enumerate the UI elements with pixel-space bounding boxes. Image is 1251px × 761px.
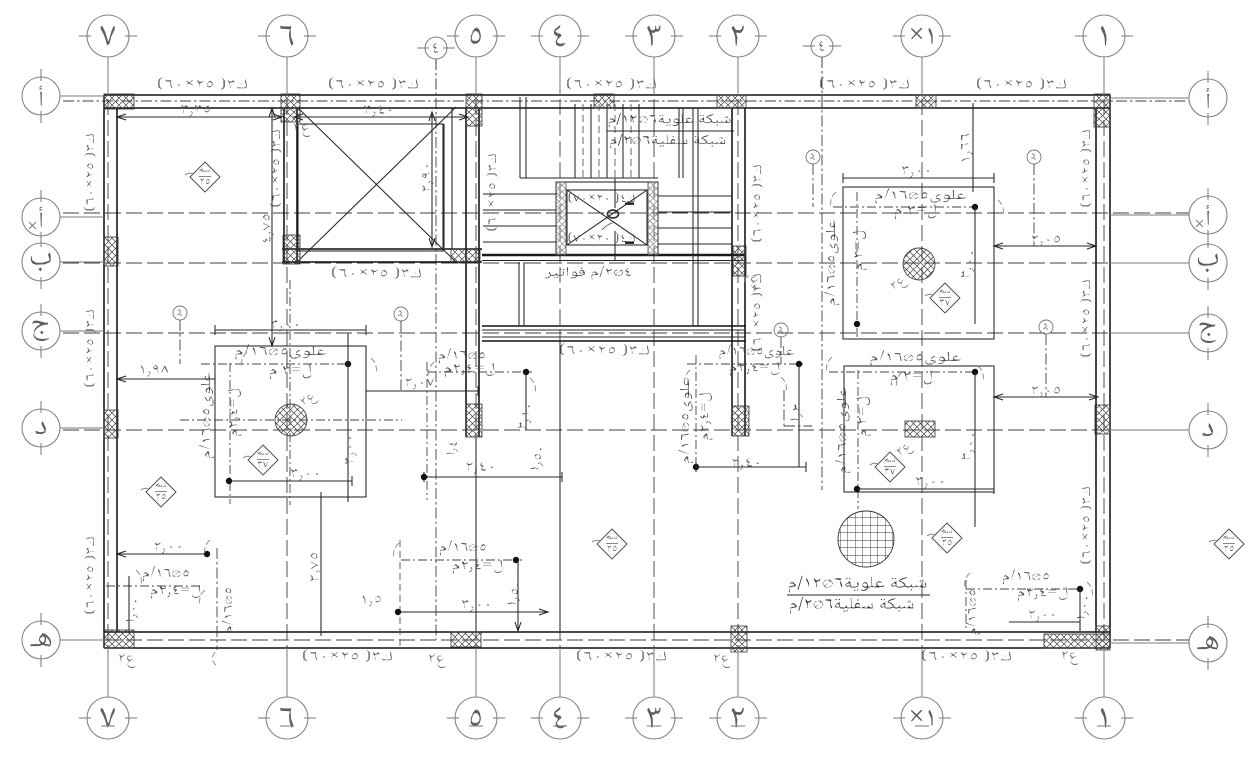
beam label K3 (vertical): [270, 130, 282, 206]
grid bubble 1 top: [1083, 15, 1125, 57]
beam label K3 (vertical): [84, 537, 96, 613]
stair shaft beam below X-square: [282, 248, 482, 250]
stair right flight treads: [658, 195, 732, 197]
beam label K3 (vertical): [751, 274, 763, 350]
callout bracket: [897, 372, 902, 388]
stair upper flight treads: [574, 104, 576, 178]
diamond 25 (outside right): [1214, 529, 1244, 559]
small bubble 4 top-left: [425, 37, 447, 59]
column at 6/A: [281, 94, 300, 122]
beam label K3: [303, 649, 392, 662]
small bubble 4 top-right: [811, 35, 833, 57]
axis bubble left h: [22, 621, 60, 659]
column at 5/E: [451, 632, 481, 647]
column mark: [743, 275, 760, 289]
slab thickness diamond 37: [248, 445, 278, 475]
beam label K3: [820, 77, 909, 90]
beam label K3: [567, 77, 656, 90]
grid row C: [63, 332, 1189, 334]
axis bubble right j: [1189, 314, 1227, 352]
marker circle: [1027, 150, 1041, 164]
stair flight wall right upper: [678, 108, 680, 178]
grid bubble 6 bottom: [266, 697, 308, 739]
rebar callout: [440, 540, 486, 555]
heavy beam (fawatir): [482, 254, 746, 257]
dimension 1.98: [117, 378, 215, 380]
column at 5/D: [466, 404, 482, 437]
grid line 4b: [821, 57, 823, 490]
column at 5/A: [466, 94, 482, 126]
column at 1/A: [1094, 94, 1110, 127]
column below shaft: [451, 249, 480, 263]
slab mesh note (bottom): [789, 575, 926, 592]
column at 6/B: [283, 235, 300, 264]
right wall: [1095, 108, 1097, 632]
X-braced shaft square: [298, 124, 443, 251]
beam label K3 (vertical): [84, 134, 96, 210]
slab mesh note (top) upper line: [609, 113, 731, 127]
axis bubble left a: [22, 198, 60, 236]
landing beam label K4 lower: [569, 232, 635, 244]
grid 4 solid lower segment: [559, 342, 561, 631]
column at 2/D: [732, 406, 749, 436]
column at 2/A: [717, 95, 746, 108]
callout bracket: [200, 590, 205, 606]
grid line x1: [921, 57, 923, 697]
stair landing: [556, 182, 658, 255]
grid bubble 2 top: [717, 15, 759, 57]
wall on grid 2: [731, 108, 733, 436]
rebar note vertical: [678, 378, 693, 463]
rebar note left (vertical): [199, 373, 214, 458]
drop panel (x1/B): [843, 187, 994, 339]
stair flight divider line: [520, 177, 658, 179]
rebar callout: [143, 566, 189, 581]
callout bracket: [530, 378, 535, 394]
dimension 3.00 bottom: [857, 488, 994, 490]
dimension 4.75: [271, 108, 273, 346]
column stair top: [594, 94, 614, 108]
ain mark: [890, 274, 910, 293]
left wall: [103, 95, 105, 648]
beam label K3: [922, 649, 1011, 662]
callout bracket: [831, 192, 836, 208]
column at 7/B: [104, 237, 118, 266]
ain mark: [896, 440, 916, 459]
dimension 2.05: [994, 245, 1096, 247]
beam label K3: [332, 266, 421, 279]
dimension 3.00 right (vertical): [347, 333, 349, 497]
grid bubble 3 bottom: [633, 697, 675, 739]
grid bubble 3 top: [633, 15, 675, 57]
dimension 2.40: [696, 466, 806, 468]
beam label K3: [329, 77, 418, 90]
grid bubble 2 bottom: [717, 697, 759, 739]
dimension 3.35: [117, 116, 282, 118]
rebar callout near 5/C: [439, 348, 485, 363]
grid bubble 7 top: [87, 15, 129, 57]
bottom beam: [104, 631, 1110, 633]
grid row D: [63, 429, 1189, 431]
wall on grid 5: [465, 108, 467, 437]
axis bubble left a: [22, 77, 60, 115]
callout bracket: [998, 200, 1003, 216]
column at 7/A: [104, 94, 134, 109]
diamond 25: [597, 529, 627, 559]
slab mesh note (top) lower line: [610, 134, 725, 148]
callout bracket: [212, 652, 217, 666]
rebar callout near 2/C: [720, 345, 794, 360]
grid line 5: [475, 57, 477, 697]
beam label K3 (vertical): [1080, 130, 1092, 206]
grid row B: [63, 262, 1189, 264]
rebar note: [876, 188, 966, 203]
dimension 2.90: [431, 112, 433, 247]
dimension 3.00 bottom: [229, 480, 352, 482]
dimension 2.40: [424, 476, 562, 478]
drop panel (6/D): [215, 346, 366, 497]
marker circle d: [173, 306, 187, 320]
beam label K3: [577, 649, 666, 662]
marker circle: [774, 323, 788, 337]
grid 5 solid lower segment: [475, 437, 477, 631]
column (hatched circle) at 6/D: [275, 404, 307, 436]
callout bracket: [429, 362, 434, 378]
marker circle: [806, 150, 820, 164]
column at 7/D: [104, 410, 118, 438]
rebar note top: [236, 344, 326, 359]
beam label K3 (vertical): [486, 154, 498, 230]
dimension 1.3 (vertical): [790, 404, 805, 423]
callout bracket: [978, 366, 983, 382]
dimension 3.00 top: [843, 177, 994, 179]
rebar dots: [345, 361, 351, 367]
grid line 4: [559, 57, 561, 697]
column mark: [119, 654, 136, 668]
column right wall bottom: [1096, 626, 1110, 650]
column mark: [429, 654, 446, 668]
dimension 2.00: [117, 553, 207, 555]
dimension 3.00: [398, 611, 548, 613]
dimension 2.00: [1009, 621, 1080, 623]
grid bubble 5 top: [455, 15, 497, 57]
dimension 1.4 (vertical): [445, 440, 460, 456]
grid bubble x1 top: [901, 15, 943, 57]
panel center lines: [201, 363, 352, 365]
ain mark: [300, 390, 320, 409]
column at 2/B: [733, 246, 746, 276]
grid bubble 1 bottom: [1083, 697, 1125, 739]
column at x1/A: [916, 95, 936, 108]
diamond 25: [932, 523, 962, 553]
grid bubble 7 bottom: [87, 697, 129, 739]
callout bracket: [205, 540, 210, 556]
beam label K3: [560, 343, 649, 356]
stair lower beam: [482, 325, 746, 327]
pile cap circle (grid hatch): [838, 511, 894, 567]
column mark: [294, 123, 311, 137]
beam label K3 (vertical): [1080, 280, 1092, 356]
callout bracket: [371, 358, 376, 374]
callout bracket: [242, 352, 247, 368]
dimension 3.00 right vertical: [974, 207, 976, 324]
callout bracket: [685, 370, 690, 386]
axis bubble right h: [1189, 624, 1227, 662]
dimension 2.75 (vertical): [320, 497, 322, 631]
grid line 3: [653, 57, 655, 697]
dash-dot L to row D: [783, 390, 785, 426]
drop panel (x1/D): [844, 366, 994, 492]
callout bracket: [1087, 582, 1092, 598]
dimension 2.05: [994, 396, 1098, 398]
dimension 3.00 top: [215, 329, 366, 331]
axis bubble right a: [1189, 196, 1227, 234]
fawatir note: [544, 266, 631, 280]
slab thickness diamond 25 (top-left): [190, 162, 220, 192]
dimension 3.00 right vertical: [974, 372, 976, 522]
column (hatched circle) at x1/B: [903, 248, 935, 280]
dimension 3.40: [294, 116, 468, 118]
axis bubble right d: [1189, 411, 1227, 449]
rebar note: [871, 350, 961, 365]
callout bracket: [136, 570, 141, 586]
callout bracket: [827, 357, 832, 373]
axis bubble right b: [1189, 244, 1227, 282]
grid line 2: [737, 57, 739, 697]
axis bubble left b: [22, 243, 60, 281]
grid line 4a: [435, 59, 437, 640]
column at 7/E corner: [104, 630, 134, 648]
top beam: [104, 94, 1110, 96]
divider: [607, 130, 734, 132]
grid line 6: [286, 57, 288, 697]
grid bubble 4 bottom: [539, 697, 581, 739]
beam label K3 (vertical): [1080, 487, 1092, 563]
dimension 1.66: [972, 108, 974, 187]
callout bracket: [781, 377, 786, 393]
stair mid wall right: [692, 108, 694, 326]
grid bubble 5 bottom: [455, 697, 497, 739]
diamond 25 left-bottom: [146, 477, 176, 507]
diamond 37: [875, 452, 905, 482]
marker circle: [1039, 320, 1053, 334]
landing beam label K4 upper: [569, 192, 635, 204]
beam label K3 (vertical): [84, 310, 96, 386]
beam label K3: [977, 77, 1066, 90]
stair left flight treads: [483, 193, 557, 195]
column at 2/E: [731, 626, 747, 652]
grid row E: [63, 639, 1189, 641]
diamond 37: [930, 283, 960, 313]
grid line 1: [1103, 57, 1105, 697]
column at x1/D: [905, 421, 935, 437]
dimension 2.07: [366, 390, 478, 392]
axis bubble left d: [22, 409, 60, 447]
beam label K3 (vertical): [751, 165, 763, 241]
axis bubble left j: [22, 312, 60, 350]
column mark: [714, 654, 731, 668]
axis bubble right a: [1189, 79, 1227, 117]
column mark: [1062, 651, 1079, 665]
grid row AX: [63, 212, 1189, 214]
callout bracket: [394, 543, 399, 559]
rebar callout: [1003, 569, 1049, 584]
grid row A: [63, 100, 1189, 102]
column at 1/D: [1095, 405, 1110, 434]
marker circle d: [394, 307, 408, 321]
column at 1/E corner: [1044, 634, 1110, 648]
callout bracket: [965, 573, 970, 589]
grid bubble x1 bottom: [901, 697, 943, 739]
grid bubble 4 top: [539, 15, 581, 57]
wall on grid 6: [283, 108, 285, 262]
dimension 3.10 (vertical): [518, 404, 535, 431]
grid bubble 6 top: [266, 15, 308, 57]
stair mid wall left: [519, 97, 521, 178]
beam label K3: [158, 77, 247, 90]
grid line 7: [107, 57, 109, 697]
